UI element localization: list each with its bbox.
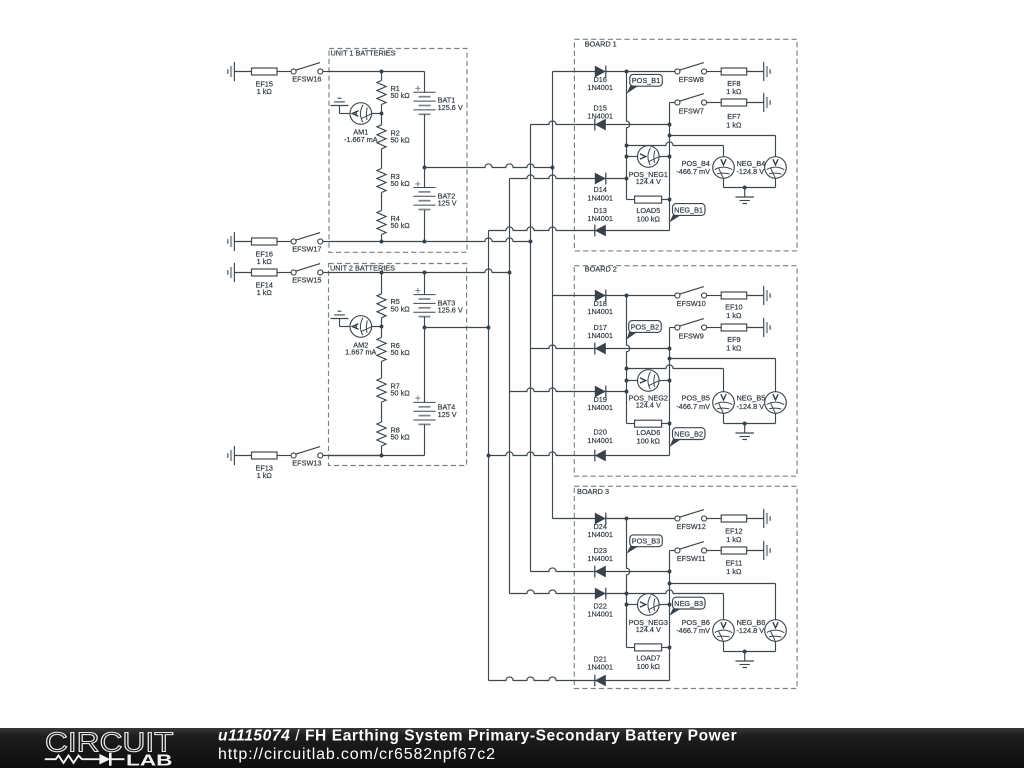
resistor R1 (381, 72, 383, 81)
voltmeter POS_NEG3 (638, 594, 660, 616)
wire (707, 518, 721, 520)
voltmeter POS_B5 (713, 392, 735, 414)
svg-text:1N4001: 1N4001 (587, 214, 613, 223)
wire NEG_B5 feed (670, 358, 776, 360)
fuse EF11 (721, 547, 747, 554)
svg-text:124.4 V: 124.4 V (636, 401, 661, 410)
wire (234, 455, 251, 457)
svg-text:-466.7 mV: -466.7 mV (676, 402, 710, 411)
wire (234, 241, 251, 243)
wire (277, 455, 291, 457)
switch EFSW8 (675, 69, 680, 74)
node ground b1 (743, 186, 747, 190)
node POS_NEG1 left (625, 155, 629, 159)
svg-text:EFSW8: EFSW8 (679, 75, 704, 84)
svg-text:1N4001: 1N4001 (587, 610, 613, 619)
diode D16 (595, 66, 606, 78)
svg-text:-124.8 V: -124.8 V (737, 626, 765, 635)
wire NEG_B6 feed (670, 583, 776, 585)
wire unit2 bottom (329, 455, 425, 457)
switch EFSW15 (291, 270, 296, 275)
diode D20 (595, 450, 606, 462)
svg-text:LAB: LAB (126, 752, 173, 768)
wire D16 row (553, 71, 675, 73)
svg-text:1 kΩ: 1 kΩ (726, 535, 742, 544)
wire POS_B2 vertical (627, 296, 630, 424)
wire (707, 550, 721, 552)
battery BAT1 (424, 72, 426, 93)
voltmeter POS_B6 (713, 620, 735, 642)
wire bus unit2-mid vertical (488, 231, 490, 681)
dashed box UNIT 2 BATTERIES (329, 264, 467, 466)
diode D19 (595, 386, 606, 398)
node POS_NEG2 left (625, 379, 629, 383)
svg-text:UNIT 1 BATTERIES: UNIT 1 BATTERIES (331, 49, 396, 58)
node bus unit2-top join (508, 271, 512, 275)
flag POS_B2 (629, 321, 662, 333)
ground EF15 input (233, 62, 235, 81)
node R4 bottom (380, 240, 384, 244)
flag NEG_B3 (673, 597, 706, 609)
fuse EF10 (721, 292, 747, 299)
wire POS_B5 feed (627, 365, 724, 369)
node LOAD6 right (668, 422, 672, 426)
ground EF14 input (233, 263, 235, 282)
ammeter AM2 (350, 316, 372, 338)
ground EF8 (763, 62, 765, 81)
node BAT1-BAT2 mid (423, 166, 427, 170)
node bus unit1-bottom join (529, 240, 533, 244)
wire D21 row (489, 677, 670, 681)
battery BAT3 (424, 273, 426, 295)
fuse EF12 (721, 515, 747, 522)
node AM1 junction (380, 112, 384, 116)
wire D15 row (531, 121, 670, 125)
ground earth b2 (744, 424, 746, 434)
svg-text:1 kΩ: 1 kΩ (726, 344, 742, 353)
diode D17 (595, 343, 606, 355)
svg-text:EFSW9: EFSW9 (679, 332, 704, 341)
logo resistor-diode glyph (45, 756, 100, 763)
svg-text:1N4001: 1N4001 (587, 403, 613, 412)
svg-text:50 kΩ: 50 kΩ (391, 348, 411, 357)
load LOAD6 (627, 423, 635, 425)
svg-text:POS_B1: POS_B1 (632, 76, 660, 85)
diode D15 (595, 119, 606, 131)
ground AM2 reference (331, 318, 349, 320)
wire POS_NEG2 right (659, 380, 669, 382)
node ground b3 (743, 650, 747, 654)
svg-text:1N4001: 1N4001 (587, 530, 613, 539)
node R5 top (380, 271, 384, 275)
diode D18 (595, 290, 606, 302)
node D15 out (668, 123, 672, 127)
diode D13 (595, 225, 606, 237)
voltmeter POS_B4 (713, 157, 735, 179)
svg-text:125 V: 125 V (438, 199, 457, 208)
svg-text:-466.7 mV: -466.7 mV (676, 626, 710, 635)
ground EF13 input (233, 446, 235, 465)
wire POS_B1 vertical (627, 72, 630, 200)
diode D14 (595, 173, 606, 185)
dashed box UNIT 1 BATTERIES (329, 49, 467, 253)
svg-text:EFSW7: EFSW7 (679, 107, 704, 116)
svg-text:EFSW11: EFSW11 (677, 554, 706, 563)
node R8 bottom (380, 454, 384, 458)
svg-text:EFSW13: EFSW13 (292, 459, 321, 468)
svg-text:125 V: 125 V (438, 410, 457, 419)
wire (323, 241, 329, 243)
svg-text:50 kΩ: 50 kΩ (391, 389, 411, 398)
wire bus unit1-bottom vertical (530, 125, 532, 572)
wire BAT1 mid to bus (425, 164, 553, 168)
wire D13 row (489, 227, 670, 231)
wire (277, 241, 291, 243)
svg-text:1 kΩ: 1 kΩ (726, 120, 742, 129)
flag POS_B1 (630, 74, 663, 86)
resistor R2 (381, 114, 383, 125)
battery BAT4 (424, 328, 426, 403)
svg-text:u1115074 / FH Earthing System: u1115074 / FH Earthing System Primary-Se… (218, 727, 737, 744)
wire (277, 71, 291, 73)
ground AM1 reference (331, 105, 349, 107)
node POS_NEG3 right (668, 603, 672, 607)
wire POS_B3 vertical (627, 519, 630, 648)
svg-text:100 kΩ: 100 kΩ (637, 214, 661, 223)
flag NEG_B1 (673, 204, 706, 216)
svg-text:1 kΩ: 1 kΩ (257, 288, 273, 297)
wire unit1 bottom (329, 238, 531, 242)
dashed box BOARD 2 (574, 266, 797, 477)
svg-text:50 kΩ: 50 kΩ (391, 179, 411, 188)
dashed box BOARD 1 (574, 39, 797, 251)
wire meters bottom b2 (723, 413, 725, 423)
node R1 top (380, 70, 384, 74)
node ground b2 (743, 422, 747, 426)
svg-text:http://circuitlab.com/cr6582np: http://circuitlab.com/cr6582npf67c2 (218, 746, 496, 763)
flag POS_B3 (630, 535, 663, 547)
svg-text:-124.8 V: -124.8 V (737, 402, 765, 411)
svg-text:NEG_B2: NEG_B2 (674, 429, 703, 438)
svg-text:1N4001: 1N4001 (587, 436, 613, 445)
svg-text:1 kΩ: 1 kΩ (726, 567, 742, 576)
ammeter AM1 (350, 103, 372, 125)
battery BAT2 (424, 168, 426, 188)
svg-text:100 kΩ: 100 kΩ (637, 662, 661, 671)
plus BAT3 (415, 290, 420, 292)
svg-text:-1.667 mA: -1.667 mA (344, 135, 378, 144)
wire D22 row (510, 590, 724, 594)
svg-text:1 kΩ: 1 kΩ (726, 87, 742, 96)
svg-text:124.4 V: 124.4 V (636, 177, 661, 186)
resistor R8 (377, 422, 386, 446)
switch EFSW13 (291, 453, 296, 458)
wire (747, 327, 764, 329)
wire unit1 top (329, 71, 425, 73)
svg-text:50 kΩ: 50 kΩ (391, 221, 411, 230)
svg-text:POS_B3: POS_B3 (632, 537, 660, 546)
switch EFSW9 (675, 325, 680, 330)
svg-text:1N4001: 1N4001 (587, 112, 613, 121)
wire EFSW11 vertical (669, 551, 671, 681)
resistor R6 (381, 327, 383, 338)
node D20 bus (487, 454, 491, 458)
node D17 out (668, 347, 672, 351)
wire EFSW9 vertical (669, 328, 671, 456)
resistor R7 (377, 378, 386, 402)
load LOAD7 (627, 647, 635, 649)
ground EF12 (763, 509, 765, 528)
svg-text:1N4001: 1N4001 (587, 331, 613, 340)
wire (234, 71, 251, 73)
node BAT2 bottom (423, 240, 427, 244)
wire (707, 295, 721, 297)
svg-text:1.667 mA: 1.667 mA (345, 348, 376, 357)
plus BAT2 (415, 183, 420, 185)
svg-text:-466.7 mV: -466.7 mV (676, 167, 710, 176)
voltmeter POS_NEG1 (638, 146, 660, 168)
wire POS_NEG3 right (659, 604, 669, 606)
node NEG_B6 feed (668, 582, 672, 586)
wire NEG_B4 feed (670, 135, 776, 137)
svg-text:1 kΩ: 1 kΩ (257, 471, 273, 480)
fuse EF13 (252, 452, 278, 459)
svg-text:50 kΩ: 50 kΩ (391, 135, 411, 144)
svg-text:50 kΩ: 50 kΩ (391, 304, 411, 313)
wire POS_NEG3 left (627, 604, 638, 606)
node bus unit2-mid join (487, 326, 491, 330)
wire (747, 102, 764, 104)
node BAT3 top (423, 271, 427, 275)
svg-text:100 kΩ: 100 kΩ (637, 437, 661, 446)
wire (234, 272, 251, 274)
wire D17 row (531, 345, 670, 349)
svg-text:1 kΩ: 1 kΩ (257, 87, 273, 96)
wire (707, 327, 721, 329)
wire bus unit2-top vertical (509, 179, 511, 594)
fuse EF9 (721, 324, 747, 331)
svg-text:1N4001: 1N4001 (587, 662, 613, 671)
fuse EF16 (252, 238, 278, 245)
wire EFSW9 stub (670, 327, 676, 329)
wire D19 row (510, 388, 627, 392)
svg-text:1N4001: 1N4001 (587, 554, 613, 563)
node NEG_B5 feed (668, 357, 672, 361)
svg-text:-124.8 V: -124.8 V (737, 167, 765, 176)
node D16 out (625, 70, 629, 74)
diode D22 (595, 588, 606, 600)
node LOAD5 right (668, 198, 672, 202)
plus BAT4 (415, 397, 420, 399)
wire D23 row (531, 568, 670, 572)
node POS_B4 feed (625, 144, 629, 148)
resistor R5 (381, 273, 383, 294)
voltmeter POS_NEG2 (638, 370, 660, 392)
voltmeter NEG_B4 (765, 157, 787, 179)
svg-text:BOARD 2: BOARD 2 (585, 265, 617, 274)
svg-text:1 kΩ: 1 kΩ (257, 257, 273, 266)
switch EFSW16 (291, 69, 296, 74)
ground EF16 input (233, 232, 235, 251)
svg-text:1N4001: 1N4001 (587, 307, 613, 316)
svg-text:NEG_B3: NEG_B3 (674, 599, 703, 608)
wire EFSW7 vertical (669, 103, 671, 231)
wire bus unit1-mid vertical (552, 72, 554, 519)
ground EF9 (763, 318, 765, 337)
wire (323, 71, 329, 73)
ground EF10 (763, 286, 765, 305)
wire (747, 550, 764, 552)
node bus unit1-mid join (551, 166, 555, 170)
svg-text:BOARD 3: BOARD 3 (577, 487, 609, 496)
node D24 out (625, 517, 629, 521)
fuse EF7 (721, 99, 747, 106)
svg-text:EFSW17: EFSW17 (292, 245, 321, 254)
diode D23 (595, 566, 606, 578)
node POS_B5 feed (625, 367, 629, 371)
wire unit2 top (329, 269, 510, 273)
wire (277, 272, 291, 274)
node AM2 junction (380, 325, 384, 329)
svg-text:1 kΩ: 1 kΩ (726, 311, 742, 320)
wire (747, 518, 764, 520)
brand bar (0, 0, 1, 1)
wire (707, 102, 721, 104)
resistor R4 (377, 211, 386, 235)
ground earth b1 (744, 188, 746, 198)
voltmeter NEG_B6 (765, 620, 787, 642)
node POS_NEG2 right (668, 379, 672, 383)
svg-text:50 kΩ: 50 kΩ (391, 433, 411, 442)
wire BAT3 mid to bus (425, 327, 489, 329)
wire EFSW11 stub (670, 550, 676, 552)
resistor R3 (377, 169, 386, 193)
svg-text:EFSW12: EFSW12 (677, 522, 706, 531)
ground EF11 (763, 541, 765, 560)
ground earth b3 (744, 652, 746, 662)
wire D14 row (510, 175, 627, 179)
wire POS_NEG2 left (627, 380, 638, 382)
svg-text:EFSW10: EFSW10 (677, 299, 706, 308)
wire D20 row (489, 452, 670, 456)
node BAT3-BAT4 mid (423, 326, 427, 330)
svg-text:125.6 V: 125.6 V (438, 103, 463, 112)
wire EFSW7 stub (670, 102, 676, 104)
svg-text:50 kΩ: 50 kΩ (391, 91, 411, 100)
flag NEG_B2 (673, 428, 706, 440)
dashed box BOARD 3 (574, 486, 797, 688)
fuse EF8 (721, 68, 747, 75)
svg-text:124.4 V: 124.4 V (636, 625, 661, 634)
svg-text:NEG_B1: NEG_B1 (674, 205, 703, 214)
svg-text:POS_B2: POS_B2 (631, 322, 659, 331)
switch EFSW12 (675, 516, 680, 521)
wire meters bottom b1 (723, 178, 725, 187)
svg-text:1N4001: 1N4001 (587, 83, 613, 92)
svg-text:1N4001: 1N4001 (587, 193, 613, 202)
ground EF7 (763, 93, 765, 112)
wire AM2 left (340, 326, 351, 328)
wire POS_NEG1 left (627, 156, 638, 158)
svg-text:UNIT 2 BATTERIES: UNIT 2 BATTERIES (330, 264, 395, 273)
wire meters bottom b3 (723, 641, 725, 651)
wire (323, 272, 329, 274)
wire D18 row (553, 295, 675, 297)
wire (747, 295, 764, 297)
node D19 out (625, 390, 629, 394)
svg-text:BOARD 1: BOARD 1 (585, 40, 617, 49)
voltmeter NEG_B5 (765, 392, 787, 414)
wire AM1 right (372, 113, 382, 115)
switch EFSW7 (675, 100, 680, 105)
svg-text:125.6 V: 125.6 V (438, 306, 463, 315)
node NEG_B4 feed (668, 134, 672, 138)
svg-text:EFSW15: EFSW15 (292, 276, 321, 285)
node POS_NEG1 right (668, 155, 672, 159)
node D23 out (668, 570, 672, 574)
wire POS_NEG1 right (659, 156, 669, 158)
load LOAD5 (627, 199, 635, 201)
wire (747, 71, 764, 73)
node POS_NEG3 left (625, 603, 629, 607)
node D14 out (625, 177, 629, 181)
node LOAD7 right (668, 646, 672, 650)
fuse EF14 (252, 269, 278, 276)
wire POS_B4 feed (627, 142, 724, 146)
fuse EF15 (252, 68, 278, 75)
wire AM2 right (372, 326, 382, 328)
wire D24 row (553, 518, 675, 520)
svg-text:EFSW16: EFSW16 (292, 75, 321, 84)
diode D24 (595, 513, 606, 525)
switch EFSW17 (291, 239, 296, 244)
wire (707, 71, 721, 73)
switch EFSW11 (675, 548, 680, 553)
wire AM1 left (340, 113, 351, 115)
plus BAT1 (415, 87, 420, 89)
diode D21 (595, 675, 606, 687)
node D18 out (625, 294, 629, 298)
switch EFSW10 (675, 293, 680, 298)
wire (323, 455, 382, 457)
node D22 out (625, 592, 629, 596)
